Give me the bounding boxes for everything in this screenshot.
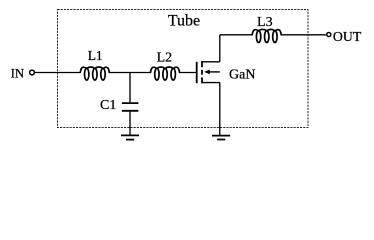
svg-text:IN: IN [11,67,24,81]
svg-text:L2: L2 [157,51,173,66]
svg-text:L3: L3 [257,15,273,30]
svg-text:C1: C1 [100,98,116,113]
svg-text:OUT: OUT [333,29,362,44]
svg-text:Tube: Tube [168,13,200,30]
svg-text:L1: L1 [88,48,103,63]
svg-text:GaN: GaN [229,68,255,83]
